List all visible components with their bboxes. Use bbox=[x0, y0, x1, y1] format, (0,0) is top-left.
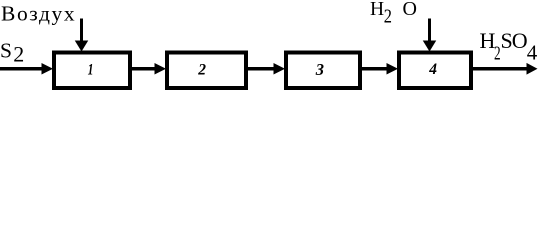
box 4 (stage 4) bbox=[399, 53, 471, 89]
arrowhead down into box 4 bbox=[423, 41, 437, 52]
arrowhead into box 2 bbox=[155, 63, 167, 74]
label S2 (sulfur feed) bbox=[0, 38, 24, 66]
wire: box 2 to box 3 bbox=[248, 67, 274, 71]
svg-text:O: O bbox=[512, 28, 528, 53]
svg-text:3: 3 bbox=[315, 60, 324, 79]
svg-text:Воздух: Воздух bbox=[1, 2, 76, 26]
wire: box 1 to box 2 bbox=[132, 67, 156, 71]
box 1 (stage 1) bbox=[54, 53, 130, 89]
arrowhead into box 4 bbox=[387, 63, 399, 74]
wire: water down line into box 4 bbox=[428, 19, 431, 42]
box 3 (stage 3) bbox=[286, 53, 360, 89]
svg-text:4: 4 bbox=[527, 41, 538, 65]
svg-text:S: S bbox=[0, 38, 12, 62]
label H2O (water feed) bbox=[370, 0, 417, 27]
label H2SO4 (product) bbox=[480, 28, 538, 65]
wire: box 3 to box 4 bbox=[362, 67, 387, 71]
wire: product out of box 4 bbox=[473, 67, 527, 71]
svg-text:2: 2 bbox=[13, 42, 24, 67]
arrowhead down into box 1 bbox=[75, 41, 89, 52]
svg-text:2: 2 bbox=[384, 5, 392, 27]
wire: air down line into box 1 bbox=[80, 19, 83, 42]
wire: S2 feed line into box 1 bbox=[0, 67, 42, 71]
arrowhead into box 1 bbox=[42, 63, 54, 74]
svg-text:1: 1 bbox=[88, 61, 94, 78]
svg-text:O: O bbox=[403, 0, 417, 20]
arrowhead product out bbox=[527, 63, 538, 75]
svg-text:H: H bbox=[480, 28, 496, 53]
svg-text:4: 4 bbox=[428, 61, 437, 78]
svg-text:H: H bbox=[370, 0, 384, 20]
svg-text:2: 2 bbox=[197, 62, 206, 79]
box 2 (stage 2) bbox=[167, 53, 246, 89]
arrowhead into box 3 bbox=[274, 63, 286, 74]
